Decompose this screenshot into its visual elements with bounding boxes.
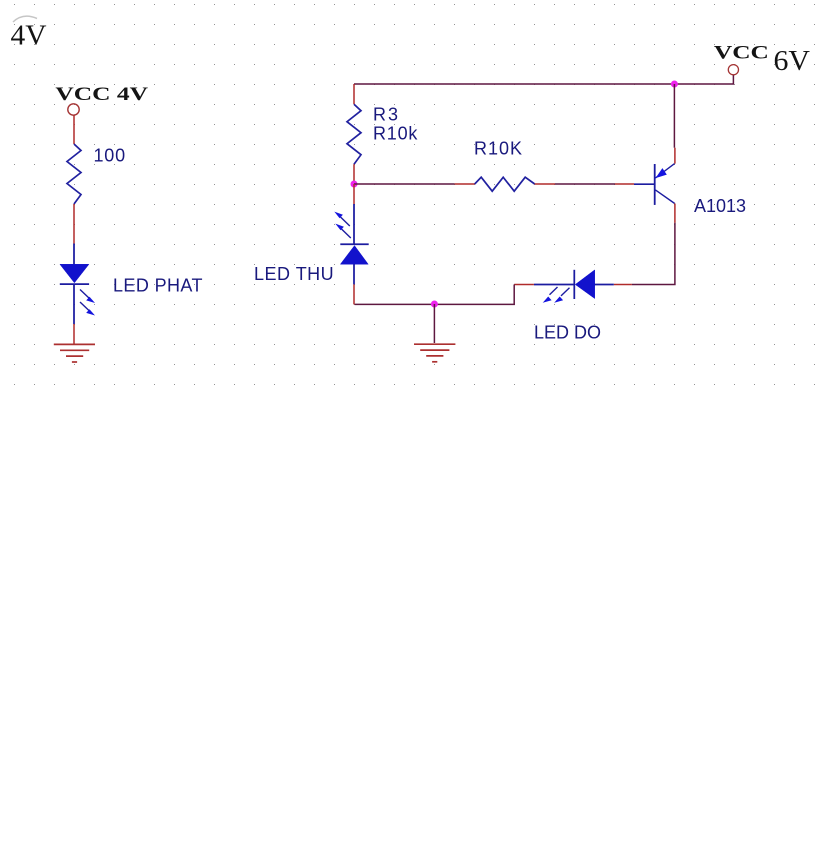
- ground GND1: [54, 344, 95, 362]
- LED D1 LED PHAT: [60, 244, 95, 325]
- annotation 4V: [11, 16, 47, 51]
- wire R10K to Q1 base: [555, 183, 634, 185]
- wire collector to LED DO: [632, 223, 675, 285]
- wire junction to GND2: [433, 304, 435, 343]
- transistor Q1 A1013: [634, 148, 675, 223]
- svg-text:R10k: R10k: [373, 124, 418, 144]
- svg-text:R3: R3: [373, 105, 400, 125]
- wire LED PHAT to ground: [73, 324, 75, 344]
- wire LED DO to bottom rail: [355, 285, 515, 305]
- svg-text:A1013: A1013: [694, 196, 746, 216]
- svg-text:VCC 4V: VCC 4V: [55, 84, 148, 105]
- svg-text:R10K: R10K: [474, 139, 523, 159]
- svg-text:6V: 6V: [774, 46, 811, 77]
- wire R100 to LED PHAT: [73, 204, 75, 244]
- power terminal VCC 4V: [55, 84, 148, 115]
- svg-text:LED PHAT: LED PHAT: [113, 276, 203, 296]
- svg-text:4V: 4V: [11, 21, 47, 52]
- resistor 100: [67, 144, 81, 204]
- junction node B: [351, 181, 358, 188]
- wire VCC4V to R100: [73, 116, 75, 145]
- svg-text:VCC: VCC: [714, 43, 769, 64]
- power terminal VCC 6V: [714, 43, 769, 75]
- svg-text:100: 100: [94, 146, 126, 166]
- LED D3 LED THU: [334, 184, 368, 304]
- resistor R3: [347, 84, 361, 184]
- junction ground node: [431, 301, 438, 308]
- junction emitter rail: [671, 81, 678, 88]
- wire top rail: [354, 75, 733, 84]
- resistor R10K: [455, 177, 555, 191]
- svg-text:LED THU: LED THU: [254, 264, 334, 284]
- ground GND2: [414, 344, 455, 362]
- svg-text:LED DO: LED DO: [534, 323, 601, 343]
- wire node B to R10K: [354, 183, 455, 185]
- LED D2 LED DO: [514, 270, 632, 303]
- wire emitter to rail: [673, 84, 675, 148]
